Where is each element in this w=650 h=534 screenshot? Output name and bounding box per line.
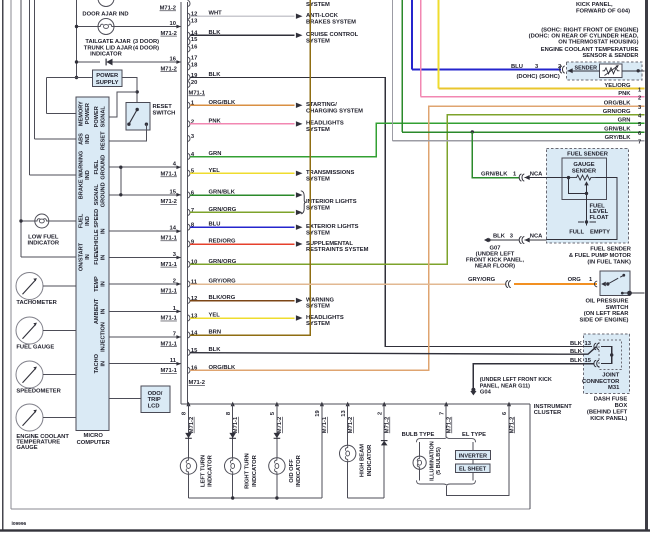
svg-text:18: 18	[191, 62, 198, 68]
svg-text:EL TYPE: EL TYPE	[462, 432, 486, 438]
svg-text:TAILGATE AJAR: TAILGATE AJAR	[85, 39, 131, 45]
svg-text:PANEL, NEAR G11): PANEL, NEAR G11)	[480, 383, 530, 389]
svg-text:FLOAT: FLOAT	[590, 215, 609, 221]
svg-text:& FUEL PUMP MOTOR: & FUEL PUMP MOTOR	[569, 253, 632, 259]
svg-text:RESET: RESET	[100, 131, 106, 150]
svg-text:(BEHIND LEFT: (BEHIND LEFT	[587, 409, 628, 415]
svg-text:INDICATOR: INDICATOR	[27, 241, 59, 247]
svg-text:ILLUMINATION: ILLUMINATION	[430, 441, 436, 481]
svg-text:OIL PRESSURE: OIL PRESSURE	[585, 299, 628, 305]
svg-text:GAUGE: GAUGE	[16, 445, 37, 451]
svg-text:7: 7	[173, 332, 176, 338]
svg-text:GRY/BLK: GRY/BLK	[605, 135, 632, 141]
svg-text:FUEL: FUEL	[94, 250, 100, 265]
svg-text:TACHO: TACHO	[94, 353, 100, 373]
svg-text:ENGINE COOLANT TEMPERATURE: ENGINE COOLANT TEMPERATURE	[541, 47, 639, 53]
svg-text:ODO/: ODO/	[148, 391, 163, 397]
svg-text:INVERTER: INVERTER	[459, 454, 487, 460]
svg-text:13: 13	[585, 341, 592, 347]
svg-text:FORWARD OF G04): FORWARD OF G04)	[576, 8, 630, 14]
svg-text:BOX: BOX	[615, 403, 628, 409]
svg-text:YEL/ORG: YEL/ORG	[604, 83, 631, 89]
svg-text:CLUSTER: CLUSTER	[534, 410, 562, 416]
svg-text:(3 DOOR): (3 DOOR)	[133, 39, 159, 45]
svg-text:IND: IND	[85, 170, 91, 180]
svg-text:TRUNK LID AJAR: TRUNK LID AJAR	[84, 45, 133, 51]
svg-text:2: 2	[173, 279, 176, 285]
svg-text:HIGH BEAM: HIGH BEAM	[360, 444, 366, 477]
svg-text:M71-2: M71-2	[385, 417, 391, 433]
svg-text:(SOHC): (SOHC)	[539, 74, 560, 80]
svg-text:(UNDER LEFT FRONT KICK: (UNDER LEFT FRONT KICK	[480, 377, 552, 383]
svg-text:VEHICLE SPEED: VEHICLE SPEED	[94, 209, 100, 254]
svg-text:PNK: PNK	[618, 91, 631, 97]
svg-text:FULL: FULL	[569, 229, 584, 235]
svg-text:M71-1: M71-1	[160, 316, 177, 322]
svg-text:COMPUTER: COMPUTER	[77, 440, 111, 446]
svg-text:M71-2: M71-2	[447, 417, 453, 433]
svg-text:POWER: POWER	[94, 106, 100, 127]
svg-text:M71-1: M71-1	[160, 288, 177, 294]
svg-text:19: 19	[315, 410, 321, 417]
svg-text:M71-1: M71-1	[160, 172, 177, 178]
svg-text:RESTRAINTS SYSTEM: RESTRAINTS SYSTEM	[306, 247, 369, 253]
svg-text:M71-2: M71-2	[277, 417, 283, 433]
svg-text:JOINT: JOINT	[602, 373, 620, 379]
svg-text:CRUISE CONTROL: CRUISE CONTROL	[306, 32, 359, 38]
svg-text:M71-1: M71-1	[160, 236, 177, 242]
svg-text:GRN: GRN	[618, 117, 631, 123]
svg-text:KICK PANEL,: KICK PANEL,	[576, 2, 613, 8]
svg-text:INDICATOR: INDICATOR	[367, 444, 373, 476]
svg-text:CHARGING SYSTEM: CHARGING SYSTEM	[306, 109, 363, 115]
svg-text:RESET: RESET	[153, 104, 173, 110]
svg-text:BRAKE WARNING: BRAKE WARNING	[78, 151, 84, 199]
svg-text:13: 13	[341, 410, 347, 417]
svg-text:DASH FUSE: DASH FUSE	[594, 396, 628, 402]
svg-text:15: 15	[585, 358, 592, 364]
svg-text:NEAR FLOOR): NEAR FLOOR)	[475, 264, 515, 270]
svg-text:2: 2	[377, 412, 383, 415]
svg-text:IN: IN	[100, 281, 106, 287]
svg-text:EXTERIOR LIGHTS: EXTERIOR LIGHTS	[306, 224, 359, 230]
svg-text:IN: IN	[100, 361, 106, 367]
svg-text:13: 13	[191, 18, 198, 24]
svg-text:INDICATOR: INDICATOR	[90, 51, 122, 57]
svg-text:(4 DOOR): (4 DOOR)	[133, 45, 159, 51]
svg-text:11: 11	[170, 358, 177, 364]
svg-text:GRY/ORG: GRY/ORG	[468, 277, 496, 283]
svg-text:M71-2: M71-2	[160, 66, 176, 72]
svg-text:SENSOR & SENDER: SENSOR & SENDER	[582, 53, 639, 59]
svg-text:SIGNAL: SIGNAL	[100, 106, 106, 128]
svg-text:LCD: LCD	[148, 403, 160, 409]
svg-text:7: 7	[638, 140, 641, 146]
svg-text:HEADLIGHTS: HEADLIGHTS	[306, 315, 344, 321]
svg-text:FUEL: FUEL	[78, 213, 84, 228]
svg-text:SENDER: SENDER	[572, 169, 597, 175]
svg-text:INJECTION: INJECTION	[100, 322, 106, 352]
svg-text:G07: G07	[490, 245, 501, 251]
svg-text:AMBIENT: AMBIENT	[94, 298, 100, 324]
svg-text:IN: IN	[100, 309, 106, 315]
svg-text:BRAKES SYSTEM: BRAKES SYSTEM	[306, 19, 356, 25]
svg-text:15: 15	[170, 189, 177, 195]
svg-text:LOW FUEL: LOW FUEL	[28, 235, 59, 241]
svg-text:IN: IN	[100, 255, 106, 261]
svg-text:M71-1: M71-1	[322, 416, 328, 433]
svg-text:SUPPLEMENTAL: SUPPLEMENTAL	[306, 241, 353, 247]
svg-text:GROUND: GROUND	[100, 155, 106, 180]
svg-text:M71-2: M71-2	[509, 417, 515, 433]
svg-text:M71-1: M71-1	[160, 262, 177, 268]
svg-text:(UNDER LEFT: (UNDER LEFT	[476, 251, 515, 257]
svg-text:SUPPLY: SUPPLY	[96, 80, 119, 86]
svg-text:GROUND: GROUND	[100, 182, 106, 207]
svg-text:ABS: ABS	[78, 133, 84, 145]
svg-text:M31: M31	[608, 385, 620, 391]
svg-text:BULB TYPE: BULB TYPE	[402, 432, 435, 438]
svg-text:TEMP: TEMP	[94, 276, 100, 292]
svg-text:INDICATOR: INDICATOR	[252, 454, 258, 486]
svg-text:ORG/BLK: ORG/BLK	[604, 100, 632, 106]
svg-text:M71-2: M71-2	[189, 417, 195, 433]
svg-text:SPEEDOMETER: SPEEDOMETER	[16, 388, 61, 394]
svg-text:POWER: POWER	[85, 103, 91, 124]
svg-text:FUEL SENDER: FUEL SENDER	[567, 152, 609, 158]
svg-text:SIDE OF ENGINE): SIDE OF ENGINE)	[580, 317, 629, 323]
svg-text:NCA: NCA	[530, 234, 543, 240]
svg-text:NCA: NCA	[530, 171, 543, 177]
svg-text:FRONT KICK PANEL,: FRONT KICK PANEL,	[466, 258, 525, 264]
svg-text:M71-1: M71-1	[189, 91, 206, 97]
svg-text:M71-1: M71-1	[160, 368, 177, 374]
svg-text:BLU: BLU	[511, 64, 523, 70]
svg-text:10: 10	[170, 21, 176, 27]
svg-text:M71-2: M71-2	[348, 417, 354, 433]
svg-text:FUEL: FUEL	[94, 159, 100, 174]
svg-text:LEFT TURN: LEFT TURN	[201, 455, 207, 487]
svg-text:(ON LEFT REAR: (ON LEFT REAR	[584, 311, 630, 317]
svg-text:M71-2: M71-2	[160, 6, 176, 12]
svg-text:MICRO: MICRO	[84, 433, 104, 439]
svg-text:ON/START: ON/START	[78, 242, 84, 271]
svg-text:TACHOMETER: TACHOMETER	[16, 300, 57, 306]
svg-text:RIGHT TURN: RIGHT TURN	[245, 453, 251, 489]
svg-text:SWITCH: SWITCH	[606, 305, 629, 311]
svg-text:(DOHC: ON REAR OF CYLINDER HEA: (DOHC: ON REAR OF CYLINDER HEAD,	[529, 34, 639, 40]
svg-text:IN: IN	[85, 254, 91, 260]
svg-text:16: 16	[170, 57, 177, 63]
svg-text:GRN/BLK: GRN/BLK	[604, 126, 631, 132]
svg-text:ON THERMOSTAT HOUSING): ON THERMOSTAT HOUSING)	[558, 40, 638, 46]
svg-text:CONNECTOR: CONNECTOR	[582, 379, 620, 385]
svg-text:MEMORY: MEMORY	[78, 101, 84, 126]
svg-text:ORG: ORG	[568, 277, 582, 283]
svg-text:BLK: BLK	[493, 234, 506, 240]
svg-text:GAUGE: GAUGE	[573, 162, 594, 168]
svg-text:M71-1: M71-1	[233, 416, 239, 433]
svg-text:16: 16	[191, 44, 198, 50]
svg-text:INSTRUMENT: INSTRUMENT	[534, 404, 572, 410]
svg-text:BLK: BLK	[570, 358, 583, 364]
svg-text:TRIP: TRIP	[148, 397, 161, 403]
svg-text:(SOHC: RIGHT FRONT OF ENGINE): (SOHC: RIGHT FRONT OF ENGINE)	[541, 27, 638, 33]
svg-text:GRN/ORG: GRN/ORG	[603, 109, 631, 115]
svg-text:INTERIOR LIGHTS: INTERIOR LIGHTS	[306, 199, 357, 205]
svg-text:(DOHC): (DOHC)	[517, 74, 538, 80]
svg-text:INDICATOR: INDICATOR	[208, 454, 214, 486]
svg-text:17: 17	[191, 56, 197, 62]
svg-text:KICK PANEL): KICK PANEL)	[590, 416, 627, 422]
svg-text:O/D OFF: O/D OFF	[289, 459, 295, 483]
svg-text:M71-2: M71-2	[160, 31, 176, 37]
svg-text:FUEL SENDER: FUEL SENDER	[590, 247, 632, 253]
svg-text:DOOR AJAR IND: DOOR AJAR IND	[82, 12, 128, 18]
svg-text:IN: IN	[100, 228, 106, 234]
svg-text:INDICATOR: INDICATOR	[296, 454, 302, 486]
svg-text:SIGNAL: SIGNAL	[94, 184, 100, 206]
svg-text:M71-1: M71-1	[160, 341, 177, 347]
svg-text:(5 BULBS): (5 BULBS)	[436, 447, 442, 475]
svg-text:G04: G04	[480, 390, 492, 396]
svg-text:(IN FUEL TANK): (IN FUEL TANK)	[587, 259, 631, 265]
svg-text:EL SHEET: EL SHEET	[459, 467, 487, 473]
svg-text:FUEL GAUGE: FUEL GAUGE	[16, 344, 54, 350]
svg-text:M71-2: M71-2	[189, 380, 205, 386]
svg-text:IND: IND	[85, 134, 91, 144]
svg-text:l09996: l09996	[12, 521, 27, 527]
svg-text:EMPTY: EMPTY	[590, 229, 610, 235]
svg-text:20: 20	[191, 80, 197, 86]
svg-text:2: 2	[638, 95, 641, 101]
svg-text:M71-2: M71-2	[160, 199, 176, 205]
svg-text:7: 7	[439, 412, 445, 415]
svg-text:BLK: BLK	[570, 349, 583, 355]
svg-text:BLK: BLK	[570, 341, 583, 347]
svg-text:SWITCH: SWITCH	[153, 111, 176, 117]
svg-text:TRANSMISSIONS: TRANSMISSIONS	[306, 170, 354, 176]
svg-text:15: 15	[191, 37, 198, 43]
svg-text:HEADLIGHTS: HEADLIGHTS	[306, 121, 344, 127]
svg-text:IND: IND	[85, 216, 91, 226]
svg-text:GRN/BLK: GRN/BLK	[481, 171, 508, 177]
svg-text:POWER: POWER	[96, 73, 119, 79]
svg-text:14: 14	[170, 226, 177, 232]
